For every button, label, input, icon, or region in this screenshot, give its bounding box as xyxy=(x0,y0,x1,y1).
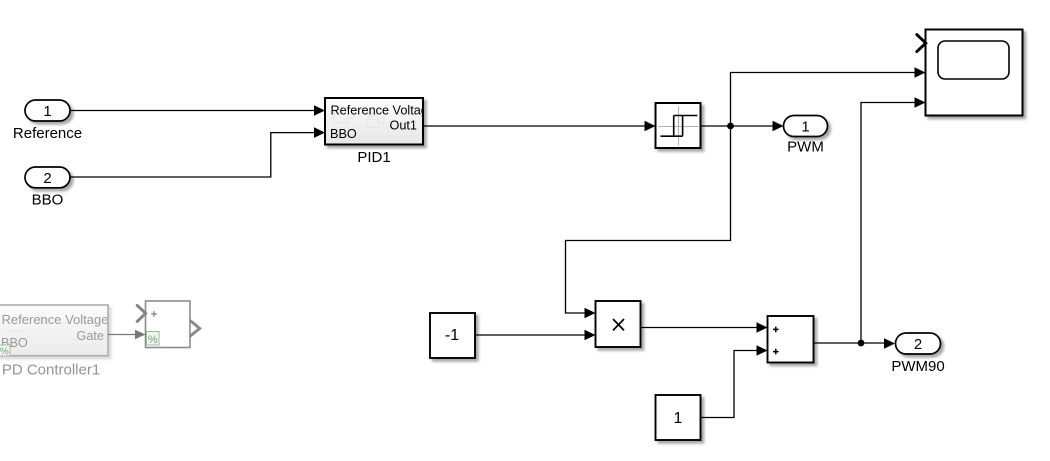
percent badge xyxy=(147,332,160,346)
plus sign xyxy=(151,311,157,317)
product block xyxy=(596,301,641,347)
junction dot on relay output xyxy=(727,123,734,130)
commented-out sum block xyxy=(137,301,200,348)
wire PID1 Out1 to Relay xyxy=(423,121,656,132)
svg-text:%: % xyxy=(0,347,9,358)
svg-text:2: 2 xyxy=(914,336,922,353)
scope screen xyxy=(938,41,1009,79)
svg-text:-1: -1 xyxy=(445,327,459,344)
commented-out subsystem PD Controller1 xyxy=(0,305,108,358)
faint content watermark xyxy=(330,112,385,128)
unconnected port X marker xyxy=(917,35,926,52)
svg-text:BBO: BBO xyxy=(32,192,64,209)
output port Out1 oval "1" PWM xyxy=(784,116,828,137)
wire junction down to Product input 1 xyxy=(566,126,731,318)
svg-text:PWM: PWM xyxy=(787,139,824,156)
svg-text:PD Controller1: PD Controller1 xyxy=(2,362,100,379)
subsystem block PID1 xyxy=(325,98,435,145)
wire -1 to Product input 2 xyxy=(475,330,596,341)
constant block 1 xyxy=(656,395,701,440)
svg-text:1: 1 xyxy=(801,119,809,136)
unconnected output chevron xyxy=(191,321,200,336)
wire junction up to Scope input 3 xyxy=(861,97,926,343)
svg-text:1: 1 xyxy=(43,103,51,120)
constant block -1 xyxy=(430,313,475,358)
svg-text:1: 1 xyxy=(674,410,683,427)
svg-text:Reference: Reference xyxy=(13,125,82,142)
wire Sum to output PWM90 xyxy=(814,338,896,349)
relay icon axes xyxy=(658,106,699,146)
wire Relay to output PWM xyxy=(701,121,784,132)
wire In2 to PID1 input 2 xyxy=(70,127,325,177)
input port In2 oval "2" xyxy=(25,167,70,188)
wire junction up to Scope input 2 xyxy=(731,67,926,126)
unconnected input X marker xyxy=(137,305,145,321)
percent badge on PD block xyxy=(0,345,10,356)
scope block xyxy=(917,30,1023,116)
relay block xyxy=(656,103,701,148)
output port Out2 oval "2" PWM90 xyxy=(896,333,941,354)
relay icon step xyxy=(661,116,698,137)
svg-text:Gate: Gate xyxy=(76,329,104,343)
svg-text:BBO: BBO xyxy=(330,127,357,141)
junction dot on sum output xyxy=(858,340,865,347)
sum block xyxy=(768,316,814,363)
svg-text:%: % xyxy=(148,334,158,346)
svg-text:Reference Voltage: Reference Voltage xyxy=(2,312,109,327)
svg-text:PID1: PID1 xyxy=(357,149,390,166)
svg-text:Out1: Out1 xyxy=(389,119,417,133)
input port In1 oval "1" xyxy=(25,100,70,121)
wire constant 1 to Sum input 2 xyxy=(701,345,768,417)
wire Product to Sum input 1 xyxy=(641,322,768,333)
svg-text:2: 2 xyxy=(43,170,51,187)
svg-text:Reference Voltage: Reference Voltage xyxy=(331,103,435,117)
gray wire PD Gate to faded sum xyxy=(108,330,146,339)
svg-text:PWM90: PWM90 xyxy=(891,358,944,375)
wire In1 to PID1 input 1 xyxy=(70,105,325,116)
